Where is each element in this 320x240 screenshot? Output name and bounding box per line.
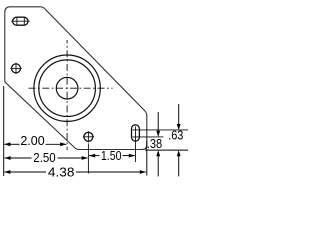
dimension 4.38 right arrow [140,170,146,174]
dimension 2.00 right arrow [60,142,66,146]
dimension 2.50 line [5,157,32,159]
slot hole D (bottom-right vertical obround) [132,125,140,141]
hole C cross [83,136,94,138]
dimension .38 lower arrow (up) [157,156,159,177]
dimension 4.38 line [4,171,46,173]
svg-text:1.50: 1.50 [101,148,122,163]
dimension 2.50 left arrow [4,156,10,160]
slot A right arc center tick [23,18,25,25]
slot A left arc center tick [16,18,18,25]
boss horizontal centerline [29,87,113,89]
dimension .63 lower arrow (up) [178,156,180,177]
dimension 1.50 line [89,155,100,157]
boss inner circle [39,60,96,117]
hole B cross [10,67,21,69]
dimension 1.50 right arrow [129,154,135,158]
slot hole A (top-left obround) [13,17,28,25]
dimension 4.38 left arrow [4,170,10,174]
svg-text:.63: .63 [168,128,183,143]
svg-text:4.38: 4.38 [48,165,75,180]
dimension 2.00 line [4,143,19,145]
dimension 2.00 left arrow [4,142,10,146]
slot D lower arc center line extending right [132,136,163,138]
svg-text:.38: .38 [147,136,162,151]
slot A horizontal centerline [11,20,29,22]
boss outer circle [34,55,100,121]
dimension 2.50 right arrow [82,156,88,160]
slot D vertical centerline / extension [135,127,137,163]
hole B (left small hole) [12,64,21,73]
hole C center extension line [87,143,89,173]
slot D upper arc center line extending right [132,129,188,131]
svg-text:2.50: 2.50 [33,150,55,165]
boss vertical centerline / extension [66,40,68,150]
left extension line [3,86,5,176]
center hole [56,77,78,99]
dimension 1.50 left arrow [89,154,95,158]
dimension .38 upper arrow (down) [157,112,159,132]
right edge extension line [146,141,148,176]
part outline [5,7,147,150]
hole C (bottom small hole) [84,132,93,141]
dimension .63 upper arrow (down) [178,104,180,125]
bottom edge extension baseline (right side) [145,149,188,151]
svg-text:2.00: 2.00 [20,133,44,148]
